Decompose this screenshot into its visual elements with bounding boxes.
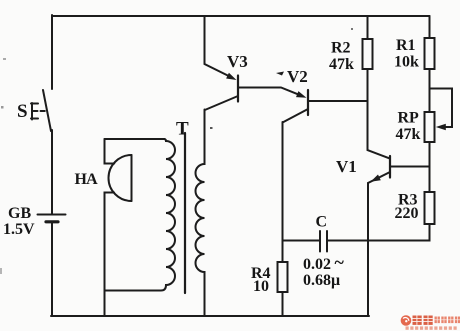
wire V3 emitter supply (205, 16, 229, 76)
wire HA top branch (105, 138, 165, 140)
wire left rail lower (51, 223, 53, 317)
speck (210, 127, 213, 129)
svg-text:10k: 10k (394, 54, 419, 71)
svg-text:V1: V1 (336, 157, 357, 176)
capacitor C (320, 231, 327, 252)
svg-text:47k: 47k (396, 126, 421, 143)
svg-text:T: T (176, 119, 189, 140)
potentiometer RP (425, 112, 435, 142)
wire left rail upper (51, 15, 53, 89)
wire HA vertical upper (105, 139, 115, 164)
wire V3 base to V2 emitter (238, 88, 298, 95)
svg-text:0.02~: 0.02~ (303, 252, 345, 273)
wire V1 base (390, 166, 430, 168)
svg-text:C: C (316, 214, 328, 231)
watermark logo (401, 315, 460, 330)
resistor R1 (425, 38, 435, 69)
wire left rail middle (51, 130, 53, 214)
wire R2 branch upper (367, 16, 369, 39)
wire right rail upper (429, 16, 431, 38)
wire capacitor to V2 collector (283, 240, 321, 242)
switch S (31, 90, 51, 131)
arrowhead V2 emitter (296, 91, 307, 98)
resistor R2 (363, 39, 373, 69)
speck (276, 72, 284, 76)
speck (1, 106, 4, 109)
resistor R4 (278, 262, 288, 292)
resistor R3 (425, 192, 435, 224)
wire R4 to bottom rail (282, 292, 284, 316)
speck (0, 268, 2, 274)
svg-text:220: 220 (395, 205, 419, 222)
wire RP wiper tap (430, 89, 453, 128)
wire HA vertical lower (105, 193, 115, 317)
svg-text:R1: R1 (396, 37, 416, 54)
transformer T secondary winding (196, 110, 205, 317)
transistor V1 (368, 156, 390, 183)
svg-text:GB: GB (8, 205, 31, 222)
arrowhead RP wiper (436, 124, 446, 131)
wire bottom rail (51, 315, 369, 317)
wire right rail R1 to RP (429, 69, 431, 112)
svg-text:R2: R2 (331, 40, 351, 57)
wire V1 emitter vertical (367, 183, 369, 316)
svg-text:0.68μ: 0.68μ (303, 272, 340, 289)
wire V2 base (308, 100, 368, 102)
wire R3 to capacitor node (328, 224, 430, 241)
battery GB (38, 215, 66, 222)
svg-text:V3: V3 (227, 52, 248, 71)
speck (3, 58, 6, 60)
svg-text:1.5V: 1.5V (3, 221, 35, 238)
transistor V2 (283, 90, 309, 123)
transistor V3 (205, 76, 238, 111)
svg-text:HA: HA (75, 171, 99, 188)
speaker HA (109, 155, 132, 201)
transformer T primary winding (105, 139, 176, 291)
arrowhead V1 emitter (371, 175, 381, 182)
wire right rail RP to R3 (429, 142, 431, 192)
svg-text:V2: V2 (287, 67, 308, 86)
arrowhead V3 emitter (226, 73, 236, 80)
transformer T core (184, 133, 186, 293)
wire R2 branch lower to V1 collector (368, 69, 390, 158)
svg-text:10: 10 (253, 278, 269, 295)
wire top rail (52, 15, 430, 17)
svg-text:RP: RP (398, 110, 420, 127)
svg-text:47k: 47k (329, 56, 354, 73)
speck (351, 28, 353, 30)
svg-text:S: S (17, 101, 28, 122)
wire V2 collector branch (282, 122, 284, 262)
